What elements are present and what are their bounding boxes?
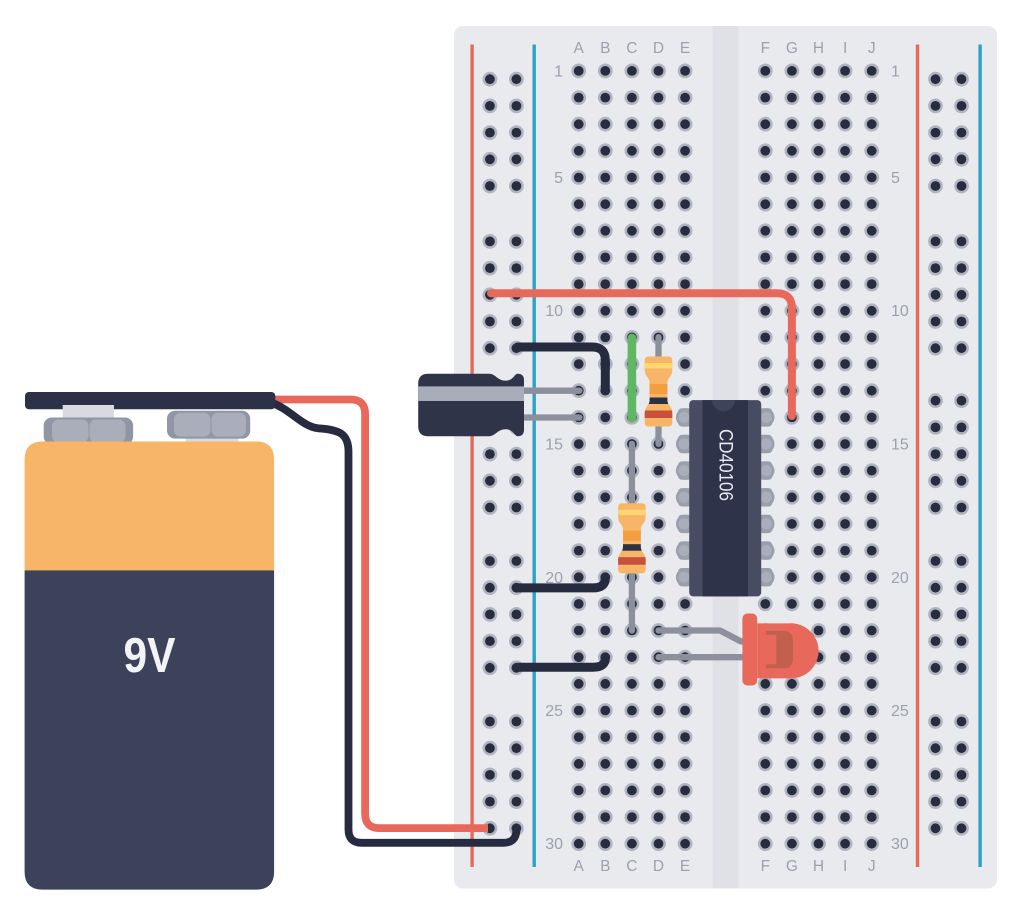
svg-text:F: F (761, 858, 770, 875)
left rail blue line (533, 45, 536, 868)
svg-text:J: J (868, 858, 876, 875)
capacitor C1 lead to A14 (500, 414, 579, 420)
svg-text:30: 30 (545, 836, 563, 853)
svg-text:A: A (574, 858, 585, 875)
svg-text:F: F (761, 40, 770, 57)
svg-text:25: 25 (891, 703, 909, 720)
battery body navy bottom (25, 570, 275, 889)
svg-text:15: 15 (545, 437, 563, 454)
LED D1 cathode lead D23 (659, 654, 746, 660)
svg-text:20: 20 (891, 570, 909, 587)
wire: black jumper left rail to B20 (518, 577, 606, 588)
svg-text:1: 1 (554, 63, 563, 80)
svg-text:D: D (653, 40, 664, 57)
IC U1 CD40106 pins right (rows 14-20, col F) (756, 408, 774, 586)
svg-text:H: H (813, 858, 824, 875)
battery 9V: top bar (25, 392, 275, 409)
resistor R2 body (618, 503, 646, 573)
row number labels (545, 63, 909, 853)
svg-text:1: 1 (891, 63, 900, 80)
LED D1 anode lead D22 (659, 631, 746, 642)
svg-text:CD40106: CD40106 (715, 429, 737, 501)
wire: black battery negative to left rail bottom (271, 403, 516, 843)
svg-text:30: 30 (891, 836, 909, 853)
svg-text:J: J (868, 40, 876, 57)
svg-text:H: H (813, 40, 824, 57)
battery body orange top (25, 442, 275, 571)
right rail red line (916, 45, 919, 868)
svg-text:A: A (574, 40, 585, 57)
svg-text:I: I (843, 858, 847, 875)
wire: red battery positive to left rail bottom (272, 400, 488, 829)
svg-text:G: G (786, 858, 798, 875)
battery negative terminal cap (167, 411, 250, 439)
svg-text:10: 10 (545, 303, 563, 320)
battery positive terminal cap (44, 418, 133, 445)
right rail blue line (978, 45, 981, 868)
LED D1 flange (742, 614, 757, 686)
LED D1 dome (757, 623, 818, 678)
svg-text:E: E (680, 858, 690, 875)
svg-text:G: G (786, 40, 798, 57)
svg-text:B: B (600, 858, 610, 875)
wire: black jumper left rail to B23 (518, 657, 606, 667)
svg-text:10: 10 (891, 303, 909, 320)
svg-text:5: 5 (554, 170, 563, 187)
left rail red line (470, 45, 473, 868)
battery positive terminal post (63, 405, 114, 419)
resistor R1 lead D11 to D15 (655, 337, 661, 444)
svg-text:D: D (653, 858, 664, 875)
resistor R2 lead C15 to C22 (629, 444, 635, 631)
breadboard body (454, 26, 997, 889)
wire: black jumper left rail to B13 (518, 347, 606, 388)
wire: red jumper left rail to G14 (491, 293, 792, 416)
wire: green jumper C11 to C14 (628, 338, 637, 418)
IC U1 CD40106 body (689, 400, 761, 596)
IC U1 CD40106 pins left (rows 14-20, col E) (676, 408, 694, 586)
svg-text:C: C (626, 40, 637, 57)
capacitor C1 body (418, 374, 524, 437)
svg-text:9V: 9V (124, 629, 176, 683)
power rail holes (484, 73, 968, 834)
breadboard center channel (713, 26, 739, 889)
column letter labels (574, 40, 876, 875)
svg-text:25: 25 (545, 703, 563, 720)
LED D1 inner reflection (766, 631, 793, 668)
svg-text:C: C (626, 858, 637, 875)
svg-text:B: B (600, 40, 610, 57)
capacitor C1 lead to A13 (500, 388, 579, 394)
svg-text:15: 15 (891, 437, 909, 454)
battery negative terminal post (186, 432, 239, 447)
terminal strip holes (573, 65, 878, 850)
svg-text:5: 5 (891, 170, 900, 187)
resistor R1 body (645, 357, 673, 427)
svg-text:I: I (843, 40, 847, 57)
svg-text:E: E (680, 40, 690, 57)
